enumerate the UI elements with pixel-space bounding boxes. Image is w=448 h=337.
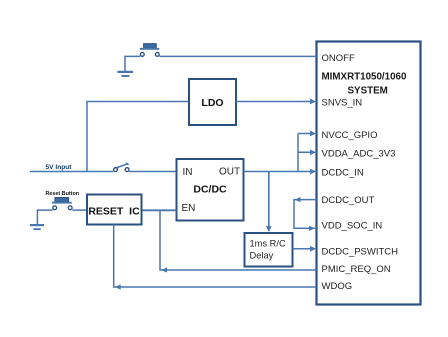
svg-text:DCDC_OUT: DCDC_OUT bbox=[322, 195, 375, 206]
1ms R/C delay U4 bbox=[245, 233, 293, 267]
MIMXRT1050/1060 system U1 bbox=[317, 42, 421, 305]
svg-text:VDDA_ADC_3V3: VDDA_ADC_3V3 bbox=[322, 149, 396, 160]
push button SW3 (reset) bbox=[52, 198, 72, 210]
switch SW2 (5V input) bbox=[114, 162, 130, 171]
svg-text:RESET IC: RESET IC bbox=[88, 206, 140, 218]
wire: branch to NVCC_GPIO bbox=[298, 133, 315, 135]
svg-text:PMIC_REQ_ON: PMIC_REQ_ON bbox=[322, 264, 391, 275]
wire: PMIC_REQ_ON to EN node bbox=[160, 210, 317, 272]
svg-text:SYSTEM: SYSTEM bbox=[348, 86, 388, 97]
LDO U2 bbox=[189, 79, 236, 125]
wire: RESET IC to EN bbox=[142, 209, 177, 211]
svg-text:MIMXRT1050/1060: MIMXRT1050/1060 bbox=[322, 72, 407, 83]
wire: DC/DC OUT to DCDC_IN bbox=[244, 171, 316, 173]
wire: delay to DCDC_PSWITCH bbox=[293, 248, 316, 250]
ground (reset button) bbox=[30, 224, 44, 230]
wire: LDO output to SNVS_IN bbox=[236, 101, 315, 103]
wire: DCDC_OUT to VDD_SOC_IN bbox=[294, 197, 317, 231]
svg-text:Reset Button: Reset Button bbox=[46, 191, 80, 197]
wire: 5V branch to LDO bbox=[87, 102, 189, 172]
svg-text:1ms R/C: 1ms R/C bbox=[250, 239, 286, 249]
wire: 5V input rail bbox=[30, 171, 114, 173]
wire: reset button to RESET IC bbox=[72, 209, 87, 211]
wire: reset button to ground bbox=[37, 210, 52, 224]
wire: branch to VDDA_ADC_3V3 bbox=[298, 151, 315, 153]
svg-text:DC/DC: DC/DC bbox=[193, 184, 227, 196]
svg-text:DCDC_IN: DCDC_IN bbox=[322, 168, 364, 179]
wire: ONOFF button to ground bbox=[125, 56, 140, 71]
wire: OUT branch riser bbox=[297, 134, 299, 172]
push button SW1 (ONOFF) bbox=[140, 44, 159, 57]
svg-text:LDO: LDO bbox=[201, 97, 223, 109]
wire: WDOG to RESET IC bbox=[114, 225, 317, 290]
svg-text:IN: IN bbox=[183, 167, 193, 178]
svg-text:ONOFF: ONOFF bbox=[322, 53, 355, 64]
wire: switch to DC/DC IN bbox=[129, 171, 176, 173]
wire: OUT drop to 1ms delay bbox=[268, 172, 270, 232]
svg-text:Delay: Delay bbox=[250, 251, 274, 261]
svg-text:NVCC_GPIO: NVCC_GPIO bbox=[322, 130, 378, 141]
DC/DC converter U3 bbox=[177, 159, 244, 221]
RESET IC U5 bbox=[87, 195, 142, 225]
ground (ONOFF button) bbox=[117, 71, 133, 77]
svg-text:OUT: OUT bbox=[219, 167, 240, 178]
wire: ONOFF button to ONOFF pin bbox=[159, 55, 316, 57]
svg-text:VDD_SOC_IN: VDD_SOC_IN bbox=[322, 221, 383, 232]
svg-text:WDOG: WDOG bbox=[322, 281, 353, 292]
svg-text:SNVS_IN: SNVS_IN bbox=[322, 98, 363, 109]
svg-text:EN: EN bbox=[182, 203, 196, 214]
svg-text:DCDC_PSWITCH: DCDC_PSWITCH bbox=[322, 246, 399, 257]
svg-text:5V Input: 5V Input bbox=[46, 164, 73, 171]
